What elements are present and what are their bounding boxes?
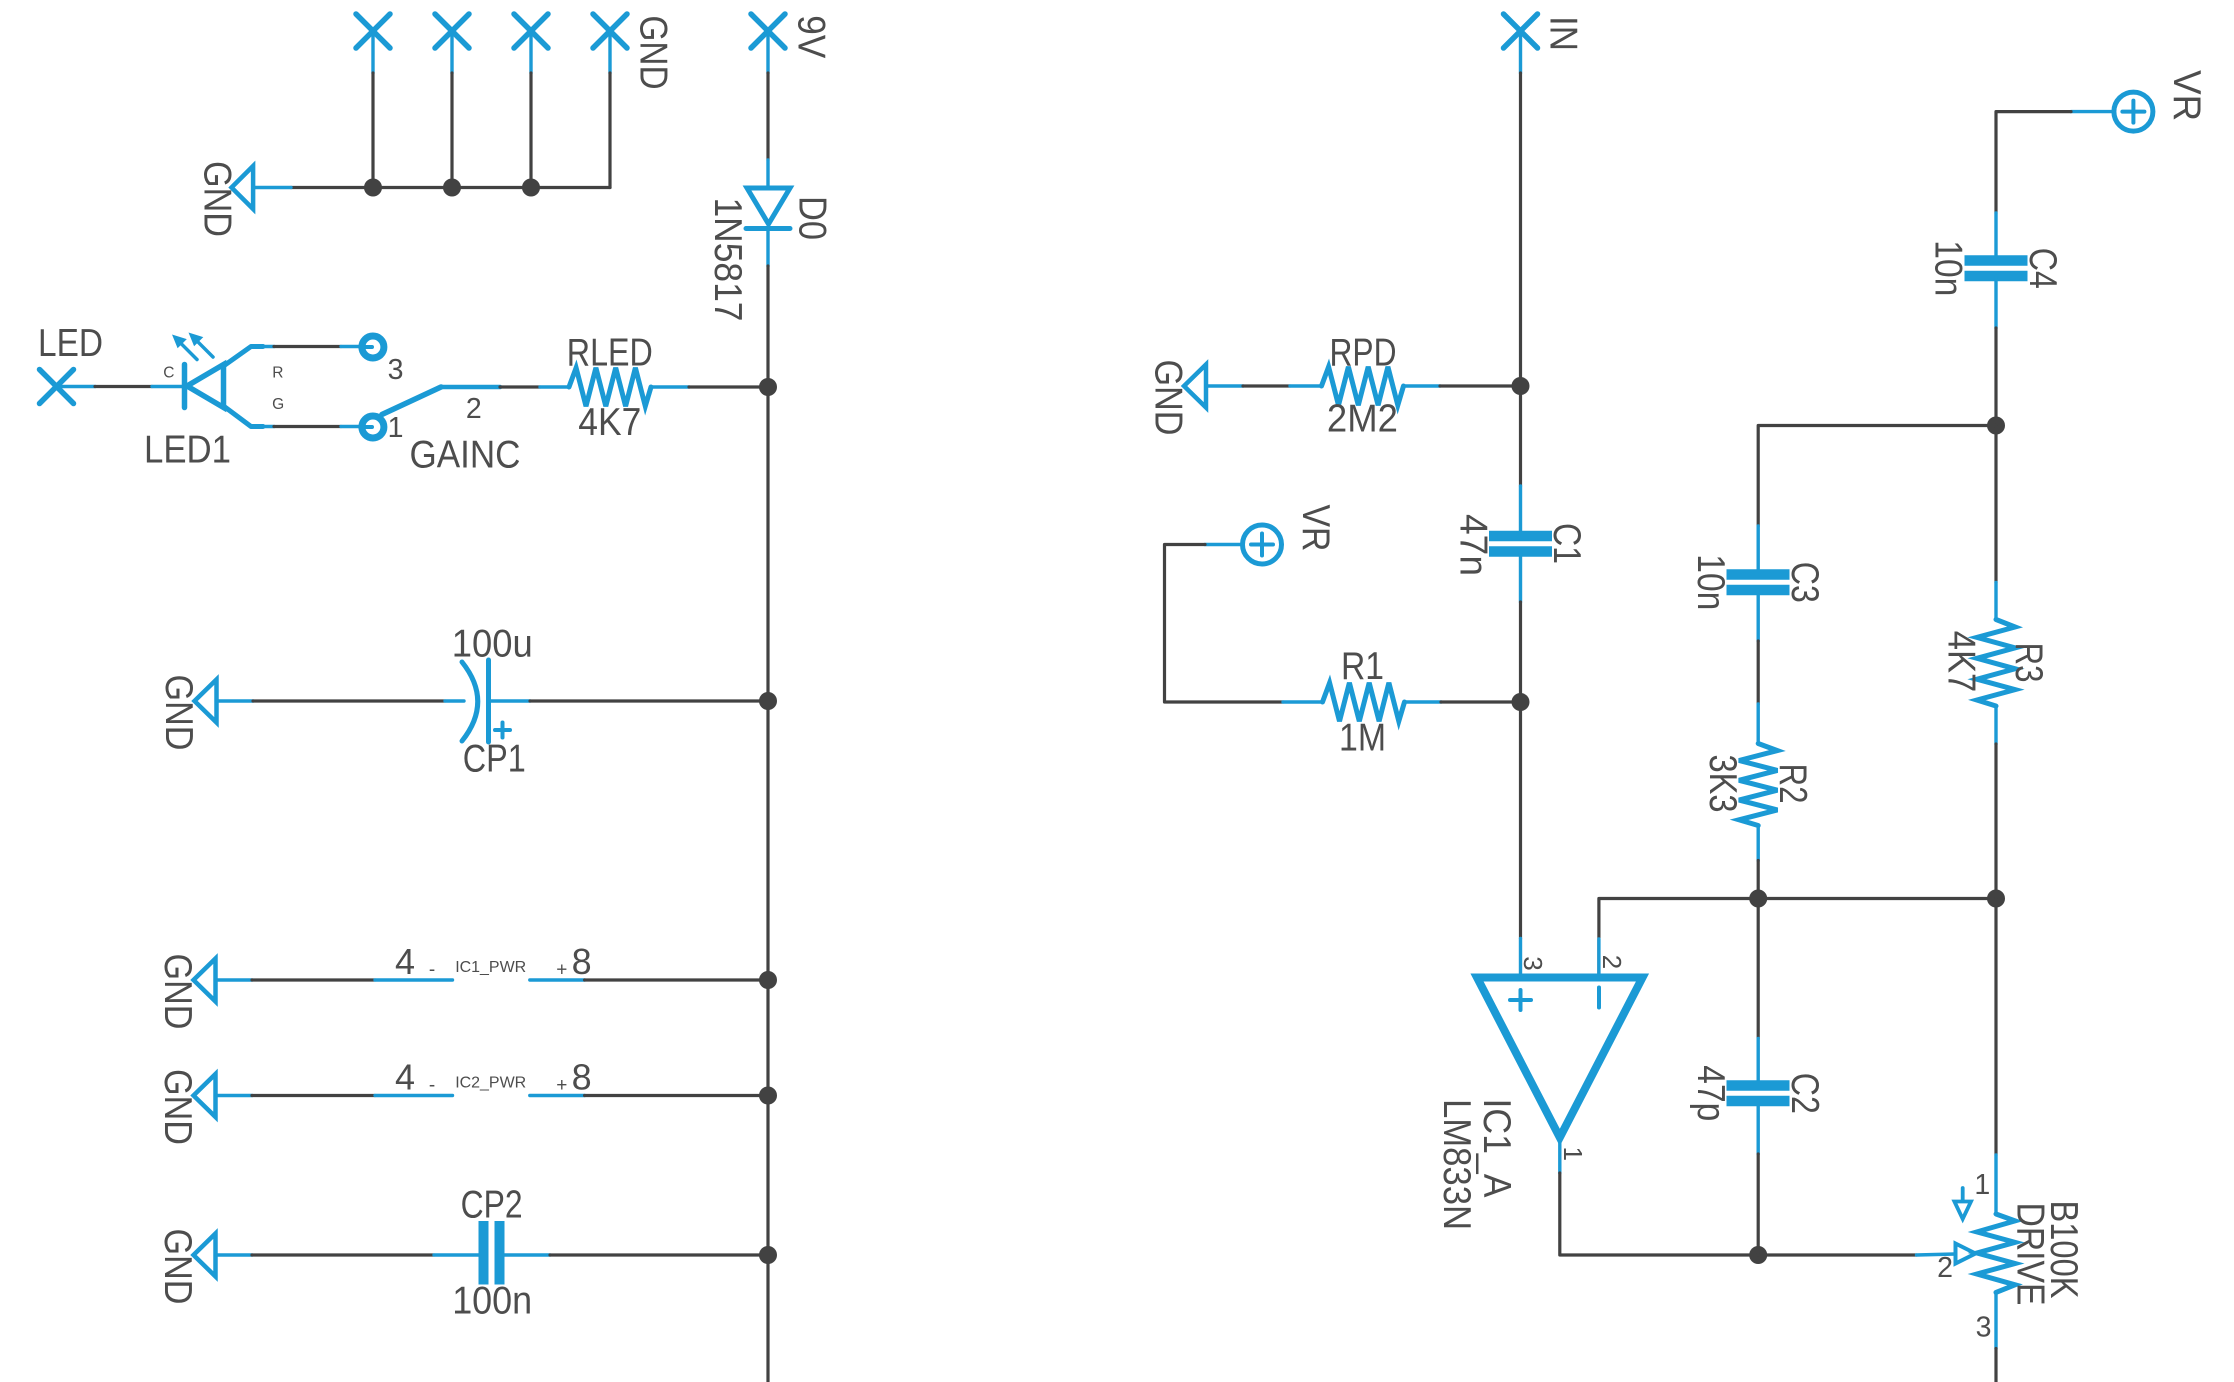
wire IC2_PWR pin 8 to rail (530, 1094, 768, 1097)
wire GND to IC2_PWR pin 4 (216, 1094, 453, 1097)
resistor R1 (1323, 683, 1405, 721)
wire 9V to diode D0 (766, 73, 769, 188)
ground symbol GND (IC1_PWR row) (156, 954, 216, 1030)
wire CP2 to rail (504, 1253, 768, 1256)
wire R3 to feedback node (1994, 706, 1997, 899)
wire IN down to RPD node (1519, 73, 1522, 386)
ground symbol GND (CP2 row) (156, 1229, 216, 1305)
wire node to C3 branch (1758, 426, 1996, 575)
switch GAINC pin 1 terminal (360, 416, 384, 438)
svg-text:IC1_A: IC1_A (1475, 1099, 1518, 1198)
capacitor C2 (1727, 1086, 1790, 1102)
op-amp plus mark (1510, 990, 1531, 1010)
junction on GND bus at X3 (522, 179, 540, 197)
wire op-amp output (1560, 1138, 1758, 1256)
LEFT SECTION (38, 14, 833, 1382)
wire feedback node down to pot (1994, 899, 1997, 1215)
junction rail / IC1_PWR (759, 971, 777, 989)
svg-text:10n: 10n (1927, 240, 1970, 296)
svg-text:DRIVE: DRIVE (2009, 1203, 2052, 1306)
svg-text:GND: GND (157, 675, 200, 751)
junction rail / CP2 (759, 1246, 777, 1264)
svg-text:GND: GND (632, 16, 675, 90)
svg-text:3: 3 (388, 354, 404, 386)
svg-text:GND: GND (156, 1069, 199, 1145)
wire GND to IC1_PWR pin 4 (216, 978, 453, 981)
svg-text:1: 1 (1974, 1169, 1990, 1201)
svg-text:VR: VR (2165, 70, 2208, 121)
svg-text:2: 2 (1937, 1252, 1953, 1284)
svg-text:4: 4 (395, 1057, 415, 1098)
wire X3 to GND bus (529, 73, 532, 188)
svg-text:IC1_PWR: IC1_PWR (455, 959, 526, 976)
junction on GND bus at X1 (364, 179, 382, 197)
wire R2 to feedback node (1756, 826, 1759, 899)
wire C3 to R2 (1756, 591, 1759, 744)
junction C1 / R1 (1512, 693, 1530, 711)
wire CP1 to rail (489, 699, 769, 702)
wire C2 branch upper (1757, 899, 1760, 1086)
resistor RPD (1322, 367, 1404, 405)
svg-text:47n: 47n (1452, 514, 1495, 576)
svg-text:GND: GND (196, 161, 239, 237)
svg-text:2M2: 2M2 (1327, 398, 1398, 441)
svg-text:LM833N: LM833N (1435, 1099, 1478, 1230)
svg-text:VR: VR (1294, 505, 1337, 552)
pin X3 (GND net stub 3) (514, 14, 548, 73)
svg-text:1: 1 (1558, 1146, 1588, 1160)
wire VR to C4 (1996, 112, 2113, 260)
svg-text:LED1: LED1 (144, 429, 231, 472)
svg-text:CP1: CP1 (463, 738, 526, 781)
svg-text:RPD: RPD (1330, 332, 1397, 375)
wire X4 to GND bus (608, 73, 611, 188)
wire GND to CP2 (216, 1253, 480, 1256)
svg-text:GND: GND (156, 954, 199, 1030)
wire node down to op-amp pin 3 (1519, 702, 1522, 978)
junction C4 / R3 / C3 (1987, 417, 2005, 435)
ground symbol GND (top-left) (196, 161, 254, 237)
wire GND to CP1 (217, 699, 465, 702)
wire diode cathode to rail (766, 229, 769, 1382)
wire LED pin to LED1 cathode (95, 385, 182, 388)
junction rail / IC2_PWR (759, 1087, 777, 1105)
svg-text:2: 2 (1597, 955, 1627, 969)
svg-text:C: C (163, 365, 174, 382)
wire IC1_PWR pin 8 to rail (530, 978, 768, 981)
junction IN / RPD (1512, 377, 1530, 395)
LED1 emission arrowheads (172, 333, 203, 349)
op-amp minus mark (1597, 988, 1601, 1008)
svg-text:GAINC: GAINC (410, 434, 521, 477)
pin X1 (GND net stub 1) (356, 14, 390, 73)
wire LED1 R-anode to switch pin3 (263, 345, 359, 348)
svg-text:-: - (429, 960, 435, 981)
svg-text:D0: D0 (790, 196, 833, 240)
svg-text:IN: IN (1542, 16, 1585, 51)
svg-text:+: + (556, 1075, 567, 1096)
junction feedback / R3 (1987, 890, 2005, 908)
wire R1 to IN node 2 (1405, 700, 1521, 703)
svg-text:G: G (272, 396, 284, 413)
wire LED1 G-anode to switch pin1 (263, 425, 359, 428)
svg-text:100u: 100u (452, 623, 533, 666)
svg-text:2: 2 (466, 393, 482, 425)
svg-text:100n: 100n (452, 1279, 532, 1322)
wire RPD to IN node (1404, 384, 1521, 387)
junction on GND bus at X2 (443, 179, 461, 197)
svg-text:3: 3 (1976, 1311, 1992, 1343)
wire C4 down to node (1994, 277, 1997, 426)
wire switch to RLED (500, 385, 569, 388)
capacitor C1 (1489, 536, 1552, 552)
op-amp IC1_A (1477, 978, 1643, 1138)
junction rail / RLED (759, 378, 777, 396)
switch GAINC lever (common pin 2) (382, 387, 500, 415)
wire X1 to GND bus (371, 73, 374, 188)
svg-text:10n: 10n (1689, 554, 1732, 610)
svg-text:+: + (556, 960, 567, 981)
ground symbol GND (IC2_PWR row) (156, 1069, 216, 1145)
pot adjust arrow (1954, 1188, 1971, 1219)
wire VR to R1 (1165, 545, 1323, 703)
pin IN (net IN) (1504, 14, 1538, 73)
svg-text:3K3: 3K3 (1701, 755, 1744, 813)
wire node to R3 (1994, 426, 1997, 620)
svg-text:C1: C1 (1545, 523, 1588, 564)
wire feedback to op-amp pin 2 (1599, 899, 1996, 978)
svg-text:C4: C4 (2021, 248, 2064, 289)
svg-text:1N5817: 1N5817 (706, 198, 749, 322)
resistor R3 (1977, 620, 2015, 707)
LED LED1 (181, 342, 263, 427)
junction output / C2 (1749, 1246, 1767, 1264)
svg-text:-: - (429, 1075, 435, 1096)
resistor R2 (1739, 744, 1777, 826)
junction feedback / C2 (1749, 890, 1767, 908)
svg-text:R2: R2 (1771, 764, 1814, 804)
junction rail / CP1 (759, 692, 777, 710)
pin 9V (net 9V) (751, 14, 785, 73)
svg-text:4K7: 4K7 (1940, 631, 1983, 693)
RIGHT SECTION (1147, 14, 2208, 1382)
svg-text:R1: R1 (1341, 645, 1384, 688)
wire C2 branch lower (1756, 1102, 1759, 1256)
svg-text:47p: 47p (1689, 1065, 1732, 1121)
svg-text:CP2: CP2 (461, 1184, 523, 1227)
svg-text:R: R (272, 364, 283, 381)
CP1 plus mark (495, 723, 510, 738)
capacitor C3 (1727, 575, 1790, 591)
svg-text:GND: GND (1147, 360, 1190, 436)
wire X2 to GND bus (450, 73, 453, 188)
svg-text:8: 8 (572, 941, 592, 982)
capacitor CP2 (484, 1221, 500, 1285)
svg-text:IC2_PWR: IC2_PWR (455, 1074, 526, 1091)
wire RLED to rail (651, 385, 768, 388)
wire GND to RPD (1206, 384, 1322, 387)
wire GND bus horizontal (291, 186, 610, 189)
ground symbol GND (RPD) (1147, 360, 1207, 436)
power node VR (top right) (2114, 92, 2153, 131)
svg-text:4: 4 (395, 941, 415, 982)
wire GND bus blue stub (253, 186, 291, 189)
svg-text:R3: R3 (2007, 643, 2050, 683)
pot wiper (pin 2) (1758, 1244, 1975, 1264)
pin X4 (GND net stub 4) (593, 14, 627, 73)
ground symbol GND (CP1 row) (157, 675, 217, 751)
wire C1 down to R1 node (1519, 552, 1522, 703)
resistor RLED (569, 368, 651, 406)
potentiometer DRIVE (1977, 1214, 2015, 1292)
switch GAINC pin 3 terminal (360, 336, 384, 358)
svg-text:RLED: RLED (567, 332, 653, 375)
svg-text:1: 1 (388, 412, 404, 444)
svg-text:C3: C3 (1783, 562, 1826, 603)
svg-text:9V: 9V (790, 15, 833, 58)
power node VR (mid) (1243, 525, 1282, 564)
svg-text:8: 8 (572, 1056, 592, 1097)
capacitor C4 (1965, 261, 2028, 277)
svg-text:1M: 1M (1339, 717, 1386, 760)
pin X2 (GND net stub 2) (435, 14, 469, 73)
svg-text:C2: C2 (1783, 1073, 1826, 1114)
diode D0 (746, 188, 790, 229)
wire IN node down to C1 (1519, 386, 1522, 535)
svg-text:3: 3 (1518, 956, 1548, 970)
svg-text:GND: GND (156, 1229, 199, 1305)
pin LED (net LED) (40, 370, 96, 404)
wire pot pin 3 down (1994, 1292, 1997, 1382)
capacitor CP1 (polarized) (462, 660, 489, 742)
svg-text:LED: LED (38, 322, 103, 365)
svg-text:4K7: 4K7 (578, 401, 641, 444)
